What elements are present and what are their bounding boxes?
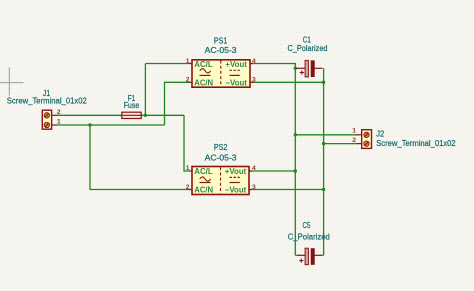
capacitor C1 xyxy=(297,60,323,77)
junction PS2 pin4 / left bus xyxy=(294,169,297,172)
svg-text:1: 1 xyxy=(186,58,190,65)
junction J2 pin1 / left bus xyxy=(294,133,297,136)
svg-text:+Vout: +Vout xyxy=(225,60,247,69)
svg-text:1: 1 xyxy=(352,128,356,135)
wire PS2 pin3 to right bus xyxy=(249,189,324,191)
wire to PS1 pin1 xyxy=(145,63,189,65)
wire C5 right lead xyxy=(320,254,324,256)
connector J2 xyxy=(357,130,372,149)
svg-text:2: 2 xyxy=(352,137,356,144)
svg-text:2: 2 xyxy=(186,184,190,191)
wire J2 pin1 xyxy=(295,134,357,136)
junction J2 pin2 / right bus xyxy=(322,142,325,145)
svg-text:2: 2 xyxy=(57,109,61,116)
svg-text:+Vout: +Vout xyxy=(225,167,247,176)
svg-text:C_Polarized: C_Polarized xyxy=(288,233,330,242)
svg-text:AC/N: AC/N xyxy=(194,79,213,88)
junction PS2 pin3 / right bus xyxy=(322,188,325,191)
junction node B on J1 pin1 wire xyxy=(88,123,91,126)
power supply PS2 xyxy=(189,167,252,195)
wire C5 left lead xyxy=(295,254,300,256)
wire PS2 pin4 to left bus xyxy=(249,170,295,172)
svg-text:J2: J2 xyxy=(376,130,385,139)
wire fuse to node A xyxy=(141,114,184,116)
sheet origin crosshair xyxy=(0,68,24,96)
wire PS1 pin4 to C1 xyxy=(250,64,295,69)
svg-text:C_Polarized: C_Polarized xyxy=(288,44,328,53)
svg-text:PS1: PS1 xyxy=(214,37,228,46)
wire J1 pin1 horizontal xyxy=(56,124,165,126)
wire left bus vertical xyxy=(294,68,296,255)
connector J1 xyxy=(42,110,56,129)
wire right bus vertical xyxy=(323,68,325,255)
fuse F1 xyxy=(122,112,141,118)
junction PS1 pin3 / right bus xyxy=(322,81,325,84)
svg-text:4: 4 xyxy=(252,165,256,172)
wire node B down to PS2 pin2 xyxy=(90,125,190,190)
svg-text:Screw_Terminal_01x02: Screw_Terminal_01x02 xyxy=(7,96,88,105)
svg-text:2: 2 xyxy=(186,77,190,84)
wire node A up to PS1 pin1 level xyxy=(144,64,146,116)
junction node A after fuse xyxy=(144,114,147,117)
svg-text:1: 1 xyxy=(186,165,190,172)
svg-text:−Vout: −Vout xyxy=(225,186,247,195)
svg-text:3: 3 xyxy=(252,77,256,84)
svg-text:−Vout: −Vout xyxy=(225,79,247,88)
svg-text:AC/L: AC/L xyxy=(194,167,213,176)
wire down to PS2 pin1 xyxy=(184,115,190,171)
power supply PS1 xyxy=(189,60,253,88)
svg-text:AC-05-3: AC-05-3 xyxy=(205,154,238,163)
wire J1 pin2 to fuse xyxy=(56,114,122,116)
svg-text:AC/L: AC/L xyxy=(194,60,213,69)
svg-text:3: 3 xyxy=(252,184,256,191)
svg-text:AC-05-3: AC-05-3 xyxy=(205,46,238,55)
svg-text:Screw_Terminal_01x02: Screw_Terminal_01x02 xyxy=(376,139,456,148)
svg-text:Fuse: Fuse xyxy=(124,101,140,110)
wire PS1 pin3 to right bus xyxy=(250,81,324,83)
svg-text:C5: C5 xyxy=(303,221,311,230)
svg-text:4: 4 xyxy=(252,58,256,65)
wire up to PS1 pin2 xyxy=(165,82,190,125)
wire J2 pin2 xyxy=(324,143,358,145)
svg-text:C1: C1 xyxy=(303,35,311,44)
svg-text:AC/N: AC/N xyxy=(194,186,213,195)
svg-text:1: 1 xyxy=(57,119,61,126)
capacitor C5 xyxy=(298,248,321,265)
junction C1 left xyxy=(294,67,297,70)
svg-text:PS2: PS2 xyxy=(214,143,228,152)
